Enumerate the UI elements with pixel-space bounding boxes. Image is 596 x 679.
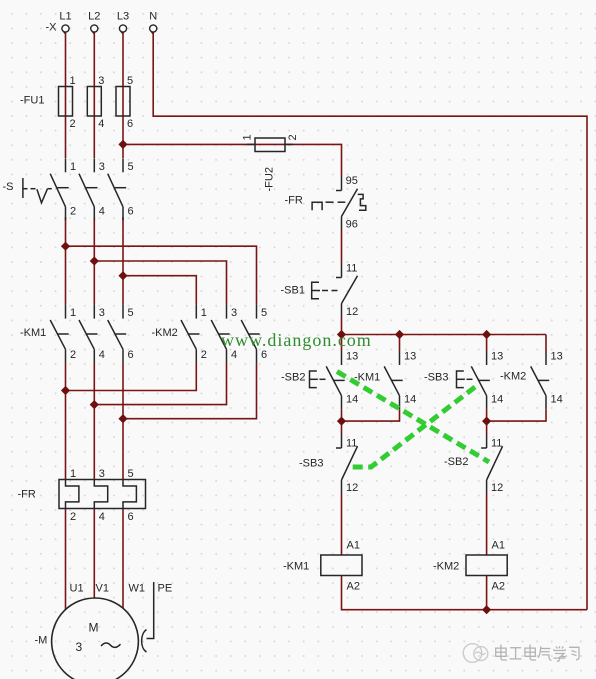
pin 12 SB3 NC <box>346 482 358 494</box>
svg-text:-KM2: -KM2 <box>433 561 459 573</box>
node junction L1 row1 <box>61 242 70 251</box>
wire S to KM1 pole1 (L1) <box>65 217 67 305</box>
svg-text:-M: -M <box>35 635 48 647</box>
svg-text:11: 11 <box>346 263 357 275</box>
wire KM1 aux bottom to node A <box>342 409 400 421</box>
pin 6 KM2 <box>261 349 267 361</box>
svg-text:5: 5 <box>127 75 133 87</box>
svg-text:L1: L1 <box>59 11 71 23</box>
wire bus to KM1 aux NO <box>399 335 401 352</box>
svg-text:4: 4 <box>99 206 105 218</box>
svg-text:3: 3 <box>231 307 237 319</box>
wire control tap L3 to fuse FU2 <box>123 143 285 145</box>
svg-text:1: 1 <box>70 75 76 87</box>
svg-text:1: 1 <box>70 468 76 480</box>
label -SB2 NC <box>444 456 468 468</box>
pushbutton SB3 NO contact <box>471 351 490 409</box>
svg-text:W1: W1 <box>129 583 146 595</box>
svg-text:5: 5 <box>128 468 134 480</box>
node junction bottom bus at KM2 coil <box>482 605 491 614</box>
pin 13 KM1 aux <box>404 351 416 363</box>
label -SB1 <box>281 285 305 297</box>
svg-text:-KM1: -KM1 <box>20 327 46 339</box>
wire bus to KM2 aux NO <box>545 335 547 352</box>
node junction bus at SB1 <box>337 330 346 339</box>
pin 4 S <box>99 206 105 218</box>
pin 3 KM1 <box>99 307 105 319</box>
svg-text:A1: A1 <box>347 540 360 552</box>
SB2 operator <box>310 371 326 388</box>
svg-text:3: 3 <box>99 307 105 319</box>
pin 4 KM1 <box>99 349 105 361</box>
pin 11 SB2 NC <box>491 438 502 450</box>
fuse FU1 pole 3 <box>116 87 130 117</box>
wire fuse FU1 to switch S phase 3 <box>122 87 124 159</box>
label U1 <box>70 583 84 595</box>
pin 6 FU1 <box>127 118 133 130</box>
pin 5 S <box>128 161 134 173</box>
svg-text:1: 1 <box>242 134 254 140</box>
label PE <box>158 583 173 595</box>
svg-text:6: 6 <box>128 349 134 361</box>
svg-text:-S: -S <box>3 181 14 193</box>
wire coil KM2 to bottom bus <box>486 576 488 610</box>
contactor KM2 main contact pole 2 <box>211 305 230 363</box>
svg-text:-KM1: -KM1 <box>283 561 309 573</box>
wire FR to motor U1 <box>65 509 67 610</box>
label -FR contact <box>285 195 303 207</box>
svg-text:U1: U1 <box>70 583 84 595</box>
svg-text:-X: -X <box>46 22 58 34</box>
wire L1 terminal to fuse FU1 <box>65 32 67 87</box>
svg-text:6: 6 <box>128 511 134 523</box>
label -S <box>3 181 14 193</box>
wire fuse FU1 to switch S phase 2 <box>93 87 95 159</box>
pin 4 FU1 <box>98 118 104 130</box>
pin 3 FR heater <box>99 468 105 480</box>
pin 1 FU1 <box>70 75 76 87</box>
pin 6 KM1 <box>128 349 134 361</box>
pin 6 S <box>128 206 134 218</box>
contactor KM1 main contact pole 3 <box>108 305 127 363</box>
motor PE frame arc <box>142 630 147 653</box>
node junction bus at SB3 <box>482 330 491 339</box>
label V1 <box>96 583 109 595</box>
wire L3 terminal to fuse FU1 <box>122 32 124 87</box>
pin 95 FR <box>346 175 358 187</box>
wire L1 branch to KM2 pole3 top <box>66 246 257 304</box>
svg-text:-SB2: -SB2 <box>444 456 468 468</box>
svg-text:11: 11 <box>491 438 502 450</box>
node junction control tap on L3 <box>118 140 127 149</box>
svg-text:A2: A2 <box>347 581 360 593</box>
pin 96 FR <box>346 219 358 231</box>
wire SB3 NO bottom to node C <box>486 409 488 434</box>
svg-text:www.diangon.com: www.diangon.com <box>221 330 372 350</box>
pin 6 FR heater <box>128 511 134 523</box>
wire L3 branch to KM2 pole1 top <box>123 276 196 305</box>
pin 14 KM2 aux <box>551 394 563 406</box>
pushbutton SB1 NC contact <box>336 264 358 317</box>
pin 2 KM1 <box>70 349 76 361</box>
wire KM1 pole1 to FR heater (L1) <box>65 363 67 480</box>
thermal relay FR heater elements <box>59 480 146 509</box>
pin 14 SB3 <box>491 394 503 406</box>
svg-text:2: 2 <box>70 511 76 523</box>
terminal L1 of -X <box>62 25 69 34</box>
svg-text:2: 2 <box>70 206 76 218</box>
wire fuse FU1 to switch S phase 1 <box>65 87 67 159</box>
svg-text:-FU2: -FU2 <box>264 167 276 191</box>
wire KM1 pole2 to FR heater (L2) <box>93 363 95 480</box>
svg-text:11: 11 <box>346 438 357 450</box>
wire KM2 pole1 bottom to L1 junction <box>66 363 197 391</box>
wire KM2 pole3 bottom to L3 junction <box>123 363 257 419</box>
svg-text:-SB3: -SB3 <box>424 372 448 384</box>
svg-text:PE: PE <box>158 583 173 595</box>
wire KM2 aux bottom to node C <box>487 409 546 421</box>
svg-text:2: 2 <box>70 349 76 361</box>
watermark www.diangon.com <box>221 330 372 350</box>
wire N net (terminal to right-side return) <box>153 32 587 610</box>
svg-text:95: 95 <box>346 175 358 187</box>
mechanical interlock link SB3 (dashed green) <box>349 387 475 467</box>
fuse FU2 <box>247 138 293 152</box>
fuse FU1 pole 1 <box>59 87 73 117</box>
terminal L3 of -X <box>119 25 126 34</box>
pin A2 KM2 <box>492 581 505 593</box>
pin A2 KM1 <box>347 581 360 593</box>
svg-text:12: 12 <box>346 482 358 494</box>
pin A1 KM2 <box>492 540 505 552</box>
svg-text:14: 14 <box>491 394 503 406</box>
pin 13 SB3 <box>491 351 503 363</box>
svg-text:5: 5 <box>261 307 267 319</box>
svg-text:4: 4 <box>99 511 105 523</box>
svg-text:4: 4 <box>99 349 105 361</box>
contactor KM1 main contact pole 2 <box>79 305 98 363</box>
svg-text:3: 3 <box>76 640 83 654</box>
wire SB1 to bus node <box>341 317 343 335</box>
svg-text:-SB2: -SB2 <box>281 372 305 384</box>
label -M <box>35 635 48 647</box>
pushbutton SB2 NC contact <box>481 434 503 493</box>
svg-text:-SB3: -SB3 <box>299 458 323 470</box>
svg-text:13: 13 <box>346 351 358 363</box>
pushbutton SB3 NC contact <box>336 434 358 493</box>
svg-text:-KM2: -KM2 <box>152 327 178 339</box>
svg-text:3: 3 <box>99 468 105 480</box>
pin A1 KM1 <box>347 540 360 552</box>
switch S pole 2 <box>79 158 98 220</box>
pin 1 FU2 <box>242 134 254 140</box>
label W1 <box>129 583 146 595</box>
svg-text:6: 6 <box>261 349 267 361</box>
svg-text:-FR: -FR <box>285 195 303 207</box>
wire bus to SB2 NO <box>341 335 343 352</box>
pin 13 SB2 <box>346 351 358 363</box>
thermal relay FR NC contact <box>336 177 366 230</box>
pin 2 FU1 <box>70 118 76 130</box>
pin 2 KM2 <box>201 349 207 361</box>
pin 5 FU1 <box>127 75 133 87</box>
node junction bus at KM1 aux <box>395 330 404 339</box>
pin 11 SB3 NC <box>346 438 357 450</box>
svg-text:12: 12 <box>346 306 358 318</box>
pin 4 KM2 <box>231 349 237 361</box>
svg-text:96: 96 <box>346 219 358 231</box>
svg-text:2: 2 <box>70 118 76 130</box>
svg-text:V1: V1 <box>96 583 109 595</box>
pin 3 FU1 <box>98 75 104 87</box>
SB3 operator <box>457 371 473 388</box>
svg-text:A2: A2 <box>492 581 505 593</box>
pin 2 FU2 <box>287 134 299 140</box>
contactor coil KM1 <box>321 555 362 576</box>
svg-text:13: 13 <box>491 351 503 363</box>
svg-text:-SB1: -SB1 <box>281 285 305 297</box>
svg-text:13: 13 <box>551 351 563 363</box>
svg-text:13: 13 <box>404 351 416 363</box>
label -KM1 aux <box>354 372 380 384</box>
pin 13 KM2 aux <box>551 351 563 363</box>
pin 5 KM1 <box>128 307 134 319</box>
svg-text:1: 1 <box>201 307 207 319</box>
svg-text:2: 2 <box>201 349 207 361</box>
svg-text:2: 2 <box>287 134 299 140</box>
svg-text:-FR: -FR <box>18 489 36 501</box>
pin 12 SB1 <box>346 306 358 318</box>
svg-text:6: 6 <box>127 118 133 130</box>
pin 14 KM1 aux <box>404 394 416 406</box>
node junction L1 row2 <box>61 386 70 395</box>
SB1 operator <box>312 282 338 299</box>
pin 5 KM2 <box>261 307 267 319</box>
fuse FU1 pole 2 <box>87 87 101 117</box>
label M <box>89 621 99 635</box>
switch S pole 1 <box>50 158 68 220</box>
terminal L2 of -X <box>91 25 98 34</box>
pin 1 S <box>70 161 76 173</box>
label -FU2 <box>264 167 276 191</box>
pin 1 FR heater <box>70 468 76 480</box>
svg-text:5: 5 <box>128 161 134 173</box>
pushbutton SB2 NO contact <box>326 351 345 409</box>
wire bottom bus to N return <box>487 609 587 611</box>
pin 2 S <box>70 206 76 218</box>
contactor KM2 aux NO contact <box>531 351 550 409</box>
mechanical interlock link SB2 (dashed green) <box>337 372 489 463</box>
FR test operator <box>312 202 345 210</box>
wire FR to motor V1 <box>93 509 95 599</box>
pin 1 KM2 <box>201 307 207 319</box>
label -KM2 aux <box>500 371 526 383</box>
label 3 <box>76 640 83 654</box>
contactor KM2 main contact pole 1 <box>181 305 200 363</box>
svg-text:N: N <box>149 11 157 23</box>
terminal N of -X <box>150 25 157 34</box>
label L1 <box>59 11 71 23</box>
svg-text:1: 1 <box>70 307 76 319</box>
wire PE conductor <box>147 582 154 639</box>
contactor KM1 aux NO contact <box>384 351 403 409</box>
wire FR to motor W1 <box>122 509 124 609</box>
label -FU1 <box>20 95 44 107</box>
svg-text:6: 6 <box>128 206 134 218</box>
label -SB3 NC <box>299 458 323 470</box>
pin 5 FR heater <box>128 468 134 480</box>
label -X terminal strip <box>46 22 58 34</box>
node junction L2 row1 <box>90 256 99 265</box>
svg-text:14: 14 <box>551 394 563 406</box>
label -FR heater <box>18 489 36 501</box>
svg-text:12: 12 <box>491 482 503 494</box>
wire SB2 NC to coil KM2 <box>486 493 488 555</box>
wire FR contact to SB1 <box>341 229 343 263</box>
pin 3 S <box>99 161 105 173</box>
svg-text:L3: L3 <box>117 11 129 23</box>
node junction C below SB3 NO <box>482 417 491 426</box>
svg-text:3: 3 <box>98 75 104 87</box>
pin 1 KM1 <box>70 307 76 319</box>
motor M circle <box>52 598 139 679</box>
wire S to KM1 pole3 (L3) <box>122 217 124 305</box>
caption 电工电气学习 <box>496 645 579 662</box>
pin 2 FR heater <box>70 511 76 523</box>
contactor KM1 main contact pole 1 <box>50 305 68 363</box>
svg-text:-FU1: -FU1 <box>20 95 44 107</box>
label -SB2 NO <box>281 372 305 384</box>
logo circles <box>463 644 488 663</box>
wire L2 terminal to fuse FU1 <box>93 32 95 87</box>
switch S manual operator <box>23 178 52 203</box>
wire SB3 NC to coil KM1 <box>341 493 343 555</box>
pin 11 SB1 <box>346 263 357 275</box>
svg-text:1: 1 <box>70 161 76 173</box>
wire KM1 pole3 to FR heater (L3) <box>122 363 124 480</box>
wire L2 branch to KM2 pole2 top <box>94 261 226 305</box>
pin 14 SB2 <box>346 394 358 406</box>
svg-text:4: 4 <box>231 349 237 361</box>
node junction L3 row1 <box>118 271 127 280</box>
svg-text:A1: A1 <box>492 540 505 552</box>
wire control bus <box>342 334 547 336</box>
svg-text:L2: L2 <box>88 11 100 23</box>
label -KM1 main <box>20 327 46 339</box>
node junction L2 row2 <box>90 400 99 409</box>
label L3 <box>117 11 129 23</box>
label -SB3 NO <box>424 372 448 384</box>
label -KM1 coil <box>283 561 309 573</box>
node junction A below SB2 NO <box>337 417 346 426</box>
switch S pole 3 <box>108 158 127 220</box>
svg-text:14: 14 <box>346 394 358 406</box>
svg-text:M: M <box>89 621 99 635</box>
svg-text:5: 5 <box>128 307 134 319</box>
wire SB2 NO bottom to node A <box>341 409 343 434</box>
label -KM2 coil <box>433 561 459 573</box>
pin 3 KM2 <box>231 307 237 319</box>
wire S to KM1 pole2 (L2) <box>93 217 95 305</box>
contactor coil KM2 <box>466 555 507 576</box>
svg-text:14: 14 <box>404 394 416 406</box>
wire coil KM1 to bottom bus <box>342 576 487 610</box>
motor AC tilde <box>101 643 121 647</box>
svg-text:4: 4 <box>98 118 104 130</box>
wire bus to SB3 NO <box>486 335 488 352</box>
svg-text:-KM2: -KM2 <box>500 371 526 383</box>
label L2 <box>88 11 100 23</box>
wire fuse FU2 to FR contact <box>285 144 342 176</box>
contactor KM2 main contact pole 3 <box>241 305 260 363</box>
wire KM2 pole2 bottom to L2 junction <box>94 363 226 405</box>
label -KM2 main <box>152 327 178 339</box>
svg-text:3: 3 <box>99 161 105 173</box>
label N <box>149 11 157 23</box>
pin 4 FR heater <box>99 511 105 523</box>
pin 12 SB2 NC <box>491 482 503 494</box>
node junction L3 row2 <box>118 414 127 423</box>
